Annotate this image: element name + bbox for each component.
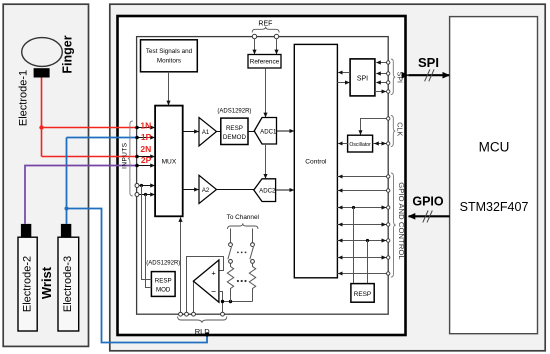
electrode-2 pad <box>21 224 31 237</box>
svg-text:RESP: RESP <box>155 277 172 284</box>
svg-text:Electrode-2: Electrode-2 <box>22 256 34 312</box>
wire CLK to oscillator <box>361 119 387 131</box>
svg-text:Control: Control <box>305 159 327 166</box>
wire ADC1 to Control <box>277 130 294 132</box>
electrode-3 pad <box>61 224 71 237</box>
svg-text:Test Signals and: Test Signals and <box>146 48 193 55</box>
SPI line 1 <box>376 62 386 64</box>
REF brace <box>252 27 279 33</box>
wire resp pin A to RESP MOD <box>142 186 152 280</box>
GPIO line 2 <box>337 190 386 192</box>
rail junction 2 <box>229 300 232 303</box>
wire REF pin2 to Reference <box>276 39 278 54</box>
RESP box <box>351 284 374 303</box>
INPUTS brace <box>128 121 133 196</box>
resp pin A <box>137 185 155 187</box>
GPIO line 4 <box>337 224 386 226</box>
GPIO line 6 <box>337 257 386 259</box>
svg-text:A2: A2 <box>202 188 210 194</box>
electrode-3 box <box>58 237 79 331</box>
MUX box <box>155 106 183 217</box>
electrode-2 box <box>18 237 37 331</box>
svg-text:Oscillator: Oscillator <box>349 142 371 148</box>
svg-text:SPI: SPI <box>418 55 439 70</box>
junction red <box>39 125 43 129</box>
wire A2 to ADC2 <box>217 189 254 191</box>
svg-text:A1: A1 <box>202 130 210 136</box>
svg-text:To Channel: To Channel <box>227 214 259 221</box>
switch chain left <box>230 229 232 243</box>
RLD minus wire to rail <box>219 292 223 302</box>
svg-text:Electrode-1: Electrode-1 <box>17 70 29 126</box>
wire red electrode-1 to 1N <box>42 78 138 157</box>
svg-text:Electrode-3: Electrode-3 <box>62 256 74 312</box>
svg-text:2N: 2N <box>140 144 151 154</box>
SPI line 3 <box>376 82 386 84</box>
ADC2 <box>254 179 276 202</box>
svg-text:ADC2: ADC2 <box>259 187 276 194</box>
left body panel <box>3 4 88 346</box>
SPI slashes <box>425 69 435 81</box>
SPI line 4 <box>375 91 386 93</box>
RLD amp U1 <box>193 260 219 302</box>
svg-text:SPI: SPI <box>395 72 402 83</box>
Control box <box>294 44 337 277</box>
svg-text:REF: REF <box>258 21 272 28</box>
svg-text:STM32F407: STM32F407 <box>460 200 529 214</box>
svg-text:RLD: RLD <box>195 327 211 336</box>
wire RESP DEMOD to ADC1 <box>248 131 254 133</box>
GPIO line 5 <box>337 240 386 242</box>
wire to RESP 1 <box>353 208 355 284</box>
junction blue <box>65 207 69 211</box>
to-channel bracket <box>228 223 259 229</box>
GPIO slashes <box>423 211 433 223</box>
chip inner boundary rect <box>137 37 389 315</box>
svg-text:SPI: SPI <box>357 76 368 83</box>
svg-text:Monitors: Monitors <box>157 58 181 65</box>
svg-text:INPUTS: INPUTS <box>122 142 129 168</box>
oscillator box <box>348 135 373 152</box>
svg-text:1P: 1P <box>141 132 152 142</box>
finger ellipse <box>22 38 63 67</box>
wire to RESP 2 <box>367 241 369 284</box>
svg-text:Wrist: Wrist <box>39 266 54 299</box>
SPI box <box>350 59 375 96</box>
RLD pin 3 output wire <box>193 281 195 312</box>
wire test box to MUX <box>168 72 170 105</box>
REF pin 1 <box>252 34 256 38</box>
input pin 2N <box>137 156 155 158</box>
dots lower <box>237 280 239 282</box>
svg-text:MOD: MOD <box>156 287 171 294</box>
wire REF pin1 to Reference <box>254 39 256 54</box>
SPI bus arrow <box>408 74 449 76</box>
svg-text:MUX: MUX <box>162 159 177 166</box>
GPIO line 1 <box>337 176 386 178</box>
svg-text:Reference: Reference <box>250 59 280 66</box>
wire Control to SPI <box>337 82 349 84</box>
RLD bottom junction <box>205 332 209 336</box>
input pin 2P <box>137 165 155 167</box>
svg-text:Finger: Finger <box>60 35 74 73</box>
wire SPI to Control <box>338 72 350 74</box>
svg-text:(ADS1292R): (ADS1292R) <box>217 109 251 115</box>
GPIO pins <box>387 175 390 178</box>
wire MUX to A1 <box>183 131 199 133</box>
GPIO bus arrow <box>409 215 450 217</box>
ADC1 <box>254 118 276 145</box>
GPIO line 3 <box>337 207 386 209</box>
svg-text:1N: 1N <box>140 121 151 131</box>
op-amp A1 <box>199 118 217 147</box>
svg-text:DEMOD: DEMOD <box>223 134 247 141</box>
SPI line 2 <box>376 73 386 75</box>
svg-text:+: + <box>211 268 216 277</box>
svg-text:GPIO: GPIO <box>412 194 444 208</box>
svg-text:RESP: RESP <box>354 291 371 298</box>
wire A1 to RESP DEMOD <box>217 131 221 133</box>
op-amp A2 <box>199 175 217 203</box>
RESP MOD box <box>151 272 175 297</box>
svg-text:RESP: RESP <box>226 125 243 132</box>
svg-text:CLK: CLK <box>395 122 404 136</box>
wire ADC2 to Control <box>276 189 294 191</box>
RLD pin 2 feedback wire <box>187 257 224 313</box>
input pin 1N <box>137 127 155 129</box>
dots upper <box>237 252 239 254</box>
svg-text:ADC1: ADC1 <box>260 128 277 135</box>
test signals and monitors box <box>141 40 198 72</box>
wire MUX to A2 <box>183 189 199 191</box>
rail junction 1 <box>221 300 224 303</box>
bottom rail <box>223 301 253 303</box>
svg-text:(ADS1292R): (ADS1292R) <box>146 260 180 266</box>
CLK pin 2 <box>387 142 390 145</box>
ADS1292R chip outer rect <box>118 16 406 335</box>
svg-text:GPIO AND CONTROL: GPIO AND CONTROL <box>397 182 406 260</box>
RLD brace <box>178 317 227 323</box>
GPIO pins brace <box>391 173 396 277</box>
wire resp pin B to RESP MOD <box>146 195 152 288</box>
input pin 1P <box>137 137 155 139</box>
REF pin 2 <box>274 34 278 38</box>
wire oscillator to Control <box>338 143 347 145</box>
right system panel <box>110 4 545 351</box>
electrode-1 pad <box>34 68 50 77</box>
resp pin B <box>137 194 155 196</box>
svg-text:−: − <box>211 286 216 296</box>
switch chain right <box>252 229 254 243</box>
RLD pin 4 wire <box>222 302 224 313</box>
RESP DEMOD box <box>221 118 248 144</box>
CLK brace <box>391 116 396 147</box>
SPI pins brace <box>391 59 396 95</box>
wire blue electrode-3 to 1P and RLD <box>67 138 208 343</box>
wire oscillator to CLK pin 2 <box>373 143 387 145</box>
svg-text:MCU: MCU <box>479 140 510 155</box>
wire ADC1 to ADC2 <box>265 144 267 178</box>
wire purple electrode-2 to 2P <box>25 166 137 224</box>
SPI pins <box>387 61 390 64</box>
RLD pin 1 wire to MUX <box>180 218 182 313</box>
GPIO line 7 <box>337 273 386 275</box>
CLK pin 1 <box>387 117 390 120</box>
wire Reference to ADC1 <box>265 68 267 117</box>
MCU box <box>450 17 538 334</box>
Reference box <box>248 55 281 69</box>
svg-text:2P: 2P <box>141 155 152 165</box>
